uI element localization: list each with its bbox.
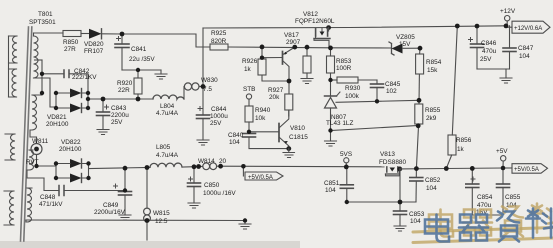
svg-text:27R: 27R <box>64 46 76 53</box>
capacitor C845 <box>371 80 384 101</box>
wire top rail y33 <box>34 32 64 34</box>
svg-text:+5V: +5V <box>496 148 508 155</box>
capacitor C841 <box>115 34 129 70</box>
svg-text:820R: 820R <box>211 38 227 45</box>
vertical from rail corner to C844 <box>202 28 204 115</box>
svg-text:+5V/0.5A: +5V/0.5A <box>248 175 273 181</box>
svg-text:T801: T801 <box>38 11 53 18</box>
svg-text:22u /35V: 22u /35V <box>129 56 155 63</box>
svg-text:VD822: VD822 <box>61 139 81 146</box>
transformer T801 <box>4 27 56 241</box>
svg-text:R940: R940 <box>255 107 271 114</box>
junction (400,202) <box>398 200 403 205</box>
wire <box>182 166 203 169</box>
svg-text:VZ805: VZ805 <box>396 34 415 41</box>
svg-text:20H100: 20H100 <box>59 146 82 153</box>
feedback line y101 <box>336 100 419 102</box>
svg-text:STB: STB <box>243 86 255 93</box>
capacitor C849 <box>114 168 132 220</box>
MOSFET V813 <box>386 167 447 176</box>
resistor R850 <box>63 31 81 37</box>
capacitor C852 <box>410 169 423 202</box>
svg-text:TL43 1LZ: TL43 1LZ <box>326 120 353 127</box>
junction (330,80) <box>328 78 332 82</box>
svg-text:R926: R926 <box>242 58 258 65</box>
junction (194,166) <box>192 164 197 169</box>
junction (203,86) <box>201 84 206 89</box>
svg-text:C841: C841 <box>131 46 147 53</box>
svg-text:C848: C848 <box>40 194 56 201</box>
svg-text:FDS8880: FDS8880 <box>379 159 406 166</box>
junction (103,99) <box>101 97 106 102</box>
svg-text:C855: C855 <box>505 194 521 201</box>
svg-text:+12V: +12V <box>500 8 516 15</box>
junction (56,178) <box>54 176 58 180</box>
junction (88,178) <box>86 176 90 180</box>
shunt regulator N807 TL431 <box>325 92 341 141</box>
ground <box>500 69 512 83</box>
right winding RW2 <box>32 95 37 130</box>
fusible resistor W830 <box>184 83 203 90</box>
ground <box>197 140 209 145</box>
right winding RW4 <box>27 188 32 222</box>
junction (56,163) <box>54 161 58 165</box>
resistor R940 <box>245 106 253 133</box>
svg-text:222/1KV: 222/1KV <box>72 74 97 81</box>
junction (262,57) <box>260 56 264 60</box>
junction (477,26) <box>475 24 480 29</box>
diode VD820 <box>89 29 122 39</box>
svg-text:10k: 10k <box>255 115 266 122</box>
junction (418,126) <box>416 123 421 128</box>
blue watermark text <box>425 209 553 242</box>
svg-text:W815: W815 <box>153 210 170 217</box>
junction (88,108) <box>86 106 90 110</box>
svg-text:R920: R920 <box>117 80 133 87</box>
svg-text:104: 104 <box>410 218 421 225</box>
svg-text:7.5: 7.5 <box>203 86 212 93</box>
junction (220,166) <box>218 164 223 169</box>
svg-text:470u: 470u <box>482 48 497 55</box>
transistor V810 <box>279 110 295 158</box>
transistor V817 <box>262 47 295 94</box>
junction (446,168) <box>444 166 449 171</box>
capacitor C854 <box>466 168 479 215</box>
diode VD822a <box>56 159 89 168</box>
ground <box>155 70 167 79</box>
wire C846/C847 common <box>477 68 510 70</box>
svg-text:VD821: VD821 <box>47 114 67 121</box>
resistor R925 <box>210 44 228 50</box>
core <box>21 27 29 241</box>
resistor R926 <box>258 47 289 81</box>
anode join vertical <box>55 93 57 108</box>
RW1 top lead to top rail <box>33 33 35 36</box>
svg-text:15k: 15k <box>427 67 438 74</box>
capacitor C851 <box>340 167 353 202</box>
node wire y99 <box>88 98 153 100</box>
svg-text:FQPF12N60L: FQPF12N60L <box>295 18 335 25</box>
junction (330,47) <box>328 46 333 51</box>
junction (294,47) <box>292 45 297 50</box>
svg-text:2907: 2907 <box>286 39 301 46</box>
junction (36,166) <box>34 164 38 168</box>
capacitor C848 <box>44 178 125 196</box>
terminal STB <box>246 94 251 106</box>
ground N807 <box>325 141 337 146</box>
right winding RW3 <box>29 150 34 170</box>
output line y167 <box>89 167 150 168</box>
svg-text:R854: R854 <box>426 59 442 66</box>
junction (56,108) <box>54 106 58 110</box>
svg-text:W814: W814 <box>198 158 215 165</box>
svg-text:V812: V812 <box>303 11 318 18</box>
tan shadow copies <box>429 204 553 237</box>
ground at end of bottom rail <box>239 221 251 230</box>
diode VD821b <box>56 104 88 113</box>
junction (416,168) <box>414 166 419 171</box>
junction (88,93) <box>86 91 90 95</box>
svg-text:1k: 1k <box>457 146 465 153</box>
junction (330,126) <box>328 128 332 132</box>
resistor R920 <box>134 70 142 99</box>
junction (42,93) <box>40 91 44 95</box>
svg-text:104: 104 <box>325 187 336 194</box>
left winding LW1 <box>13 36 17 63</box>
terminal +12V <box>505 16 510 26</box>
junction (125,190) <box>123 188 127 192</box>
junction (346,166) <box>344 165 349 170</box>
junction (457,26) <box>455 24 460 29</box>
svg-text:15V: 15V <box>399 41 411 48</box>
junction (249,131) <box>247 130 251 134</box>
RW1 bottom lead <box>34 78 57 107</box>
svg-text:C854: C854 <box>477 194 493 201</box>
svg-text:100R: 100R <box>336 65 352 72</box>
svg-text:R925: R925 <box>211 30 227 37</box>
capacitor C842 <box>42 60 88 93</box>
svg-text:C845: C845 <box>385 81 401 88</box>
diode VD821a <box>56 89 88 98</box>
junction (138,99) <box>136 97 141 102</box>
divider column R854 R855 <box>415 48 424 168</box>
svg-text:V817: V817 <box>284 32 299 39</box>
svg-text:FR107: FR107 <box>84 48 104 55</box>
resistor R930 <box>331 77 378 83</box>
left vertical feed wire <box>8 36 10 97</box>
inductor L805 <box>150 163 182 167</box>
left winding LW2 <box>12 69 17 97</box>
svg-text:C852: C852 <box>425 177 441 184</box>
drive rail y47 <box>228 47 391 48</box>
svg-text:C851: C851 <box>324 180 340 187</box>
junction (506,25) <box>504 24 509 29</box>
capacitor C846 <box>469 26 484 69</box>
svg-text:V813: V813 <box>380 151 395 158</box>
junction (147,167) <box>145 165 150 170</box>
svg-text:R856: R856 <box>456 137 472 144</box>
junction (138,70) <box>136 68 140 72</box>
junction (289,81) <box>287 79 292 84</box>
svg-text:R927: R927 <box>268 87 284 94</box>
svg-text:4.7u/4A: 4.7u/4A <box>156 152 179 159</box>
svg-text:20: 20 <box>219 158 227 165</box>
junction (245,220) <box>243 218 247 222</box>
junction (346,202) <box>345 200 349 204</box>
watermark 电器资料 <box>413 204 553 243</box>
svg-text:2200u: 2200u <box>111 112 129 119</box>
junction (377,101) <box>375 99 379 103</box>
svg-text:C849: C849 <box>103 202 119 209</box>
junction (472,168) <box>470 166 475 171</box>
svg-text:C847: C847 <box>518 45 534 52</box>
svg-text:471/1kV: 471/1kV <box>39 201 63 208</box>
svg-text:1000u: 1000u <box>210 113 228 120</box>
fusible resistor W814 <box>203 163 217 170</box>
resistor R853 <box>327 48 335 96</box>
right winding RW1 <box>34 36 39 78</box>
svg-text:104: 104 <box>426 185 437 192</box>
capacitor C840 <box>243 134 289 149</box>
diode VD822b <box>56 174 89 183</box>
capacitor C844 <box>197 107 210 141</box>
left winding LW4 <box>10 191 15 225</box>
anode line y126 <box>331 126 419 131</box>
capacitor C850 <box>188 167 201 208</box>
svg-text:W811: W811 <box>32 138 49 145</box>
wire to bend <box>122 34 210 47</box>
svg-text:SPT3501: SPT3501 <box>29 19 56 26</box>
svg-text:100k: 100k <box>345 93 360 100</box>
svg-text:104: 104 <box>229 139 240 146</box>
capacitor C847 <box>503 26 516 69</box>
junction (122,34) <box>120 32 125 37</box>
svg-text:C850: C850 <box>204 182 220 189</box>
MOSFET V812 <box>314 25 331 48</box>
capacitor C853 <box>394 202 407 231</box>
svg-text:5VS: 5VS <box>340 151 352 158</box>
svg-text:L804: L804 <box>160 103 175 110</box>
svg-text:1k: 1k <box>244 66 252 73</box>
resistor R927 <box>285 94 293 116</box>
output arrow +5V/0.5A right <box>503 167 512 169</box>
preload column R856 <box>446 26 457 168</box>
wire rail +12V y28 <box>203 26 506 28</box>
svg-text:104: 104 <box>519 53 530 60</box>
svg-text:25V: 25V <box>210 120 222 127</box>
RW1 mid tap to C842 node <box>35 59 43 61</box>
svg-text:+12V/0.6A: +12V/0.6A <box>514 26 542 32</box>
ground <box>97 130 109 135</box>
wire <box>81 33 89 35</box>
svg-text:25V: 25V <box>111 119 123 126</box>
junction (88,99) <box>86 97 90 101</box>
output arrow +12V/0.6A <box>506 26 512 27</box>
svg-text:12.5: 12.5 <box>155 218 168 225</box>
capacitor C843 <box>97 99 110 129</box>
svg-text:20k: 20k <box>269 94 280 101</box>
junction (125,168) <box>123 166 128 171</box>
svg-text:R853: R853 <box>336 58 352 65</box>
svg-text:25V: 25V <box>480 56 492 63</box>
svg-text:20H100: 20H100 <box>46 121 69 128</box>
+5V rail <box>446 167 503 170</box>
zener VZ805 <box>389 42 420 55</box>
junction (88,163) <box>86 161 90 165</box>
svg-text:R855: R855 <box>425 107 441 114</box>
junction (307,47) <box>305 45 310 50</box>
svg-text:C1815: C1815 <box>289 134 308 141</box>
svg-text:102: 102 <box>386 88 397 95</box>
junction (420,48) <box>418 46 423 51</box>
svg-text:C844: C844 <box>211 106 227 113</box>
mid output arrow +5V/0.5A <box>243 166 283 180</box>
svg-text:RVT: RVT <box>26 159 39 166</box>
terminal 5VS <box>344 158 349 167</box>
tan underline bands <box>413 228 553 233</box>
inductor L804 <box>153 87 184 100</box>
svg-text:V810: V810 <box>290 125 305 132</box>
junction (262,46) <box>260 45 265 50</box>
svg-text:VD820: VD820 <box>84 41 104 48</box>
gate resistor (unlabeled) <box>301 48 313 84</box>
junction (198,166) <box>196 164 201 169</box>
wire C841 to ground <box>122 69 161 71</box>
junction (419,101) <box>417 98 422 103</box>
svg-text:R930: R930 <box>345 85 361 92</box>
svg-text:4.7u/4A: 4.7u/4A <box>156 110 179 117</box>
svg-text:L805: L805 <box>156 144 171 151</box>
svg-text:1000u /16V: 1000u /16V <box>203 190 236 197</box>
svg-text:C840: C840 <box>228 132 244 139</box>
fusible resistor W815 <box>144 168 151 241</box>
line to base <box>249 131 278 133</box>
svg-text:2200u/16V: 2200u/16V <box>94 209 126 216</box>
left winding LW3 <box>11 134 16 160</box>
svg-text:+5V/0.5A: +5V/0.5A <box>514 167 539 173</box>
svg-text:W830: W830 <box>201 77 218 84</box>
svg-text:C853: C853 <box>409 211 425 218</box>
capacitor C855 <box>497 168 510 215</box>
junction (42,73) <box>40 72 44 76</box>
bottom rail y220 <box>26 219 245 222</box>
terminal +5V <box>501 156 506 168</box>
bottom rail y202 <box>347 201 416 203</box>
thermistor W811 <box>31 137 42 166</box>
svg-text:2k9: 2k9 <box>426 115 437 122</box>
RW2 leads <box>30 93 42 137</box>
junction (147,220) <box>145 218 150 223</box>
svg-text:C846: C846 <box>481 40 497 47</box>
svg-text:470u: 470u <box>477 202 492 209</box>
junction (56,93) <box>54 91 58 95</box>
svg-text:R850: R850 <box>63 39 79 46</box>
cathode join vertical <box>87 93 89 108</box>
svg-text:C843: C843 <box>111 105 127 112</box>
svg-text:22R: 22R <box>118 87 130 94</box>
